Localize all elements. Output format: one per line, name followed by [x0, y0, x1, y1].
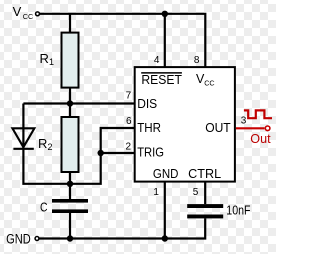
terminal Vcc	[36, 12, 40, 16]
svg-text:8: 8	[194, 55, 200, 66]
wire: GND pin 1 stub	[164, 182, 166, 239]
svg-text:7: 7	[126, 91, 132, 102]
wire: node B right and up to THR pin 6	[70, 128, 135, 184]
svg-text:TRIG: TRIG	[137, 146, 164, 160]
svg-text:3: 3	[241, 116, 247, 127]
svg-text:10nF: 10nF	[226, 203, 251, 217]
node Vcc label	[13, 4, 34, 21]
wire: R2 bottom lead to node B	[69, 171, 71, 184]
svg-text:RESET: RESET	[141, 73, 182, 87]
wire: C bottom lead to ground rail	[69, 213, 71, 239]
wire: bottom ground rail to 10nF corner	[40, 218, 206, 238]
svg-text:R: R	[38, 136, 47, 151]
svg-text:1: 1	[49, 57, 54, 67]
junction: top rail / pin 4	[162, 11, 168, 17]
svg-text:DIS: DIS	[137, 97, 157, 111]
wire: node A left to diode anode	[23, 102, 70, 104]
wire: R1 bottom lead to node A	[69, 87, 71, 104]
IC U1 555 timer body	[135, 67, 235, 182]
svg-text:1: 1	[153, 187, 159, 198]
junction: THR/TRIG tie	[98, 150, 104, 156]
svg-text:CC: CC	[204, 79, 214, 88]
junction: node A (R1/R2/diode/DIS)	[67, 100, 73, 106]
svg-text:2: 2	[48, 142, 53, 152]
wire: diode branch vertical through diode down to node B	[23, 104, 70, 184]
svg-text:CC: CC	[23, 12, 33, 21]
capacitor C2 10nF	[187, 203, 251, 218]
resistor R1	[62, 33, 79, 88]
wire: C top lead	[69, 184, 71, 200]
svg-text:OUT: OUT	[205, 121, 231, 135]
wire: pin 4 drop from top rail	[164, 14, 166, 67]
svg-text:CTRL: CTRL	[188, 167, 221, 181]
svg-text:GND: GND	[6, 232, 31, 247]
output waveform symbol (red square wave)	[244, 110, 272, 118]
wire: top Vcc rail from terminal to pin 8 corner	[40, 14, 205, 67]
junction: node B (R2/diode/C/THR-TRIG)	[67, 181, 73, 187]
pin label RESET (pin 4) with overline	[141, 73, 182, 87]
wire: node A to DIS pin 7	[70, 102, 135, 104]
svg-text:V: V	[13, 4, 22, 19]
svg-text:R: R	[40, 51, 49, 66]
capacitor C	[40, 199, 88, 214]
svg-text:THR: THR	[137, 121, 161, 135]
diode D1	[12, 128, 34, 149]
junction: ground rail / pin 1	[162, 235, 168, 241]
terminal Out (red)	[265, 126, 270, 131]
wire: R2 top lead	[69, 104, 71, 119]
svg-text:4: 4	[154, 55, 160, 66]
terminal GND	[35, 237, 39, 241]
wire: CTRL pin 5 lead to 10nF	[204, 182, 206, 205]
svg-text:Out: Out	[250, 132, 271, 146]
pin label Vcc (pin 8)	[196, 72, 215, 88]
svg-text:5: 5	[193, 187, 199, 198]
wire: OUT pin 3 (red)	[236, 127, 264, 129]
svg-text:2: 2	[126, 141, 132, 152]
svg-text:C: C	[40, 199, 48, 214]
svg-text:GND: GND	[153, 166, 179, 181]
wire: R1 top lead	[69, 14, 71, 34]
wire: TRIG pin 2 branch	[101, 152, 135, 154]
resistor R2	[62, 117, 79, 172]
junction: ground rail / C	[67, 235, 73, 241]
svg-text:6: 6	[126, 116, 132, 127]
